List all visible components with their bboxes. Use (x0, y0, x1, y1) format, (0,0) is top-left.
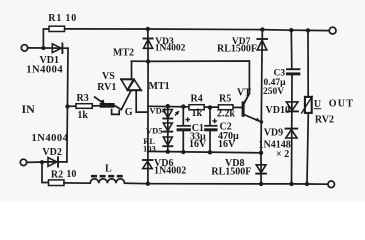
node C1 bottom (181, 150, 185, 154)
node junction B (input bottom) (40, 160, 44, 164)
diode VD6 (143, 151, 187, 183)
wire regulator rail (148, 106, 242, 107)
wire MT2 branch (132, 60, 149, 62)
svg-text:RV1: RV1 (97, 82, 116, 93)
wire bottom bus (125, 183, 328, 184)
diode VD4 (150, 105, 173, 151)
svg-text:IN: IN (22, 102, 36, 116)
node RV2 top on bus (306, 28, 310, 32)
node VD7 top on bus (260, 27, 264, 31)
node chain bottom (166, 150, 170, 154)
diode VD7 (217, 30, 267, 61)
node C2 top (208, 105, 212, 109)
node VD3 bottom (146, 59, 150, 63)
node RV2 bottom on bus (305, 182, 309, 186)
node junction A (input top) (41, 46, 45, 50)
node C2 bottom (208, 150, 212, 154)
transistor VT (237, 88, 263, 124)
node C3 top on bus (289, 28, 293, 32)
varistor RV2 (301, 30, 334, 184)
svg-text:VT: VT (237, 88, 251, 99)
wire emitter vertical (260, 61, 263, 153)
diode VD9 (259, 127, 298, 160)
svg-text:VD10: VD10 (266, 105, 290, 116)
node VD8 bottom (259, 182, 263, 186)
diode VD2 (32, 133, 69, 166)
terminal input bottom (20, 159, 26, 165)
diode VD10 (266, 102, 298, 116)
svg-text:1N4004: 1N4004 (26, 65, 63, 76)
node VD9 bottom on bus (289, 182, 293, 186)
svg-text:R2: R2 (51, 169, 63, 180)
label IN (22, 102, 36, 116)
svg-text:R3: R3 (77, 93, 89, 104)
wire gate G (121, 91, 133, 118)
triac VS (113, 47, 170, 92)
diode RL103 (143, 136, 172, 153)
resistor R3 (68, 93, 93, 121)
node R3 tap (65, 104, 69, 108)
terminal input top (21, 45, 27, 51)
node VD6 bottom (146, 182, 150, 186)
svg-text:R1 10: R1 10 (48, 13, 77, 24)
svg-text:RL1500F: RL1500F (217, 43, 257, 54)
svg-text:G: G (125, 107, 133, 118)
node chain top (166, 104, 170, 108)
svg-text:VD9: VD9 (264, 127, 283, 138)
terminal output top (329, 27, 336, 34)
capacitor C1 (177, 106, 207, 152)
node VD3 top on bus (146, 27, 150, 31)
svg-text:250V: 250V (263, 87, 284, 97)
svg-text:RL1500F: RL1500F (211, 167, 251, 178)
svg-text:× 2: × 2 (276, 149, 289, 160)
diode VD5 (146, 123, 172, 135)
inductor L (90, 164, 124, 184)
svg-text:1N4002: 1N4002 (154, 166, 186, 177)
wire to bottom bus (42, 162, 49, 182)
node C1 top (181, 104, 185, 108)
svg-text:R4: R4 (191, 94, 203, 105)
svg-text:VD2: VD2 (42, 147, 61, 158)
wire top bus (65, 29, 330, 31)
capacitor C2 (204, 107, 239, 152)
diode VD3 (144, 29, 186, 61)
svg-text:RV2: RV2 (315, 114, 334, 125)
svg-text:OUT: OUT (329, 99, 355, 110)
diode VD1 (26, 44, 68, 76)
svg-text:16V: 16V (218, 139, 236, 150)
svg-text:L: L (105, 164, 112, 175)
svg-text:2.2k: 2.2k (217, 109, 236, 120)
svg-text:1N4004: 1N4004 (32, 133, 69, 144)
svg-text:VS: VS (102, 71, 115, 82)
svg-text:1k: 1k (77, 110, 88, 121)
resistor R4 (189, 94, 204, 119)
resistor R1 (48, 13, 77, 31)
diode VD8 (211, 153, 266, 184)
svg-text:R5: R5 (219, 93, 231, 104)
svg-text:MT2: MT2 (113, 47, 134, 58)
capacitor C3 (263, 30, 300, 184)
wire MT1 lead (136, 90, 148, 112)
light arrow (175, 111, 180, 116)
wire center vertical (147, 61, 149, 151)
node rail end (259, 151, 263, 155)
svg-text:16V: 16V (189, 139, 207, 150)
svg-text:1k: 1k (192, 108, 203, 119)
resistor R2 (49, 169, 77, 185)
svg-text:U: U (314, 99, 321, 110)
svg-text:10: 10 (66, 169, 76, 180)
resistor R5 (217, 93, 236, 119)
svg-text:MT1: MT1 (149, 81, 170, 92)
wire mid rail (148, 151, 261, 152)
wire input top to junction (28, 29, 49, 48)
wire rectifier join vertical (67, 48, 68, 162)
svg-text:VD4: VD4 (150, 105, 167, 115)
wire bottom bus left (64, 182, 90, 184)
wire input bottom (27, 161, 48, 164)
svg-text:C3: C3 (274, 68, 286, 78)
terminal output bottom (328, 181, 335, 188)
wire collector feed (148, 61, 249, 103)
potentiometer RV1 (92, 71, 121, 115)
svg-text:VD5: VD5 (146, 125, 163, 135)
label U OUT (314, 99, 354, 111)
svg-text:1N4002: 1N4002 (155, 44, 186, 54)
